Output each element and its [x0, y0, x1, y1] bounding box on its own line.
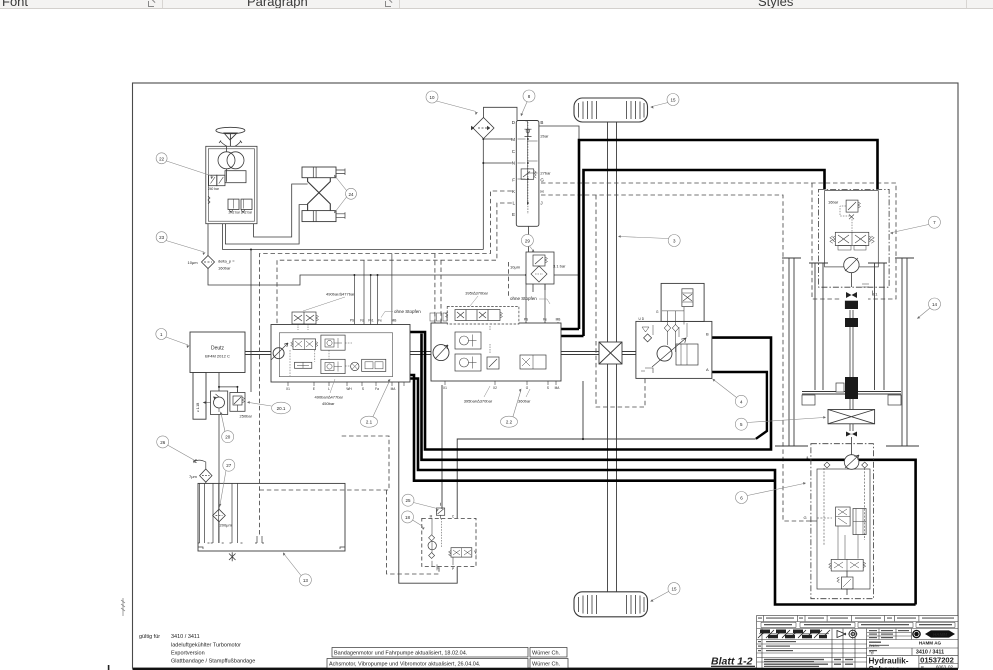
fold mark: [121, 598, 125, 616]
svg-text:25: 25: [405, 498, 411, 503]
svg-text:Zeichn.: Zeichn.: [869, 644, 880, 648]
wire: pump pilot risers: [354, 254, 545, 325]
svg-text:D: D: [512, 120, 516, 125]
leader circle 27: [219, 459, 235, 507]
suction filter 26: [194, 460, 213, 483]
leader circle 15 top: [650, 94, 679, 109]
svg-text:PS: PS: [350, 319, 354, 323]
leader 20.1: [247, 401, 291, 414]
projection symbols: [837, 629, 858, 639]
pump 2.1 port labels: [286, 319, 396, 392]
engine 1 Deutz: [190, 332, 245, 419]
dashed net: manifold G to drum motor: [541, 183, 896, 299]
svg-text:Achsmotor, Vibropumpe und Vibr: Achsmotor, Vibropumpe und Vibromotor akt…: [329, 662, 481, 668]
gearbox X-box on axle: [599, 342, 622, 364]
svg-text:E: E: [512, 212, 515, 217]
leader circle 18: [402, 511, 425, 530]
revision note boxes: [327, 648, 568, 669]
vibromotor block 6: [806, 444, 873, 599]
svg-text:L: L: [512, 201, 515, 206]
svg-text:≥ 1.1B: ≥ 1.1B: [196, 403, 200, 412]
wire: steering feed left column: [483, 139, 512, 250]
svg-text:450bar: 450bar: [322, 401, 335, 406]
svg-text:MA: MA: [391, 387, 397, 391]
thick drive line pump2.2 to drum motor A: [559, 170, 825, 336]
svg-text:K: K: [512, 189, 515, 194]
svg-text:ohne Stopfen: ohne Stopfen: [510, 296, 537, 301]
svg-text:Exportversion: Exportversion: [171, 651, 205, 657]
svg-text:Würner Ch.: Würner Ch.: [532, 662, 561, 668]
leader circle 14: [917, 298, 941, 319]
svg-text:X1: X1: [286, 387, 290, 391]
svg-text:20: 20: [225, 435, 231, 440]
vibration gearbox 5: [828, 410, 875, 424]
svg-text:HAMM: HAMM: [933, 632, 947, 637]
engine-pump mechanical shaft: [245, 352, 658, 355]
svg-text:Fs: Fs: [360, 319, 364, 323]
wire: charge/return line y275: [208, 224, 579, 285]
svg-text:U D: U D: [639, 317, 645, 321]
svg-text:24: 24: [348, 192, 354, 197]
svg-text:2bar: 2bar: [540, 133, 549, 138]
fake small texts rows: [758, 618, 954, 668]
leader circle 7: [890, 216, 940, 234]
svg-text:Typ: Typ: [869, 651, 874, 655]
drawing frame: [133, 83, 959, 668]
thick line axle motor A: [711, 372, 767, 439]
svg-text:27: 27: [226, 463, 232, 468]
svg-text:Fv1: Fv1: [368, 319, 374, 323]
steering unit 22: [206, 146, 257, 223]
dashed pilot net: manifold K/L to pumps: [260, 191, 512, 536]
svg-text:delta_p =: delta_p =: [218, 259, 235, 264]
svg-text:MB: MB: [556, 318, 561, 322]
dashed net: axle motor loop: [596, 195, 645, 407]
svg-text:HAMM AG: HAMM AG: [919, 640, 942, 645]
svg-text:2N2 bar 2N2 bar: 2N2 bar 2N2 bar: [229, 211, 254, 215]
svg-text:10: 10: [429, 95, 435, 100]
svg-text:22: 22: [159, 156, 165, 161]
svg-text:C: C: [512, 149, 516, 154]
svg-text:18: 18: [405, 515, 411, 520]
relief valve 20.1: [230, 390, 245, 412]
tank 13: [198, 483, 346, 561]
leader circle 25: [402, 494, 439, 512]
svg-text:S: S: [362, 387, 364, 391]
pump 2.2 port labels: [443, 318, 560, 390]
svg-text:2.2: 2.2: [506, 420, 513, 425]
svg-text:395bar/∆370bar: 395bar/∆370bar: [464, 399, 493, 404]
svg-text:10μm: 10μm: [510, 265, 521, 270]
charge pump 20: [204, 391, 228, 415]
svg-text:WH: WH: [346, 387, 352, 391]
svg-text:G: G: [804, 515, 807, 520]
svg-text:M: M: [511, 137, 515, 142]
wire: charge pump circuit bottom left: [206, 249, 252, 544]
svg-text:P: P: [452, 567, 454, 571]
leader circle 23: [156, 232, 205, 255]
leader circle 6: [736, 482, 807, 503]
svg-text:X1: X1: [443, 386, 447, 390]
leader circle 22: [156, 153, 213, 179]
svg-text:Fe: Fe: [378, 319, 382, 323]
svg-text:Würner Ch.: Würner Ch.: [532, 651, 561, 657]
leader circle 13: [283, 552, 311, 586]
svg-text:MA: MA: [555, 386, 561, 390]
thick line pump to axle motor B: [410, 332, 771, 450]
svg-text:15: 15: [671, 587, 677, 592]
svg-text:S: S: [547, 386, 549, 390]
steering wheel: [216, 127, 245, 147]
svg-text:29: 29: [525, 238, 531, 243]
vibro pump 2.2: [431, 323, 561, 381]
leader circle 3: [618, 235, 680, 247]
svg-text:200μm: 200μm: [220, 523, 233, 528]
svg-text:PS: PS: [524, 318, 528, 322]
svg-text:13: 13: [303, 578, 309, 583]
svg-text:B: B: [706, 332, 709, 337]
svg-text:16bar: 16bar: [828, 200, 839, 205]
leader circle 26: [157, 436, 196, 463]
axle motor block 4: [636, 283, 712, 378]
svg-text:Bandagenmotor und Fahrpumpe ak: Bandagenmotor und Fahrpumpe aktualisiert…: [334, 651, 468, 657]
leader 2.2: [501, 389, 522, 428]
thick vibro line 2: [410, 379, 916, 605]
filter 27: [213, 509, 226, 522]
filter block 29: [526, 252, 554, 284]
svg-text:X2: X2: [493, 386, 497, 390]
svg-text:01537202: 01537202: [920, 655, 954, 664]
drive pump 2.1: [271, 325, 410, 383]
svg-text:27bar: 27bar: [540, 171, 551, 176]
frame bottom heavy edge: [133, 668, 959, 670]
leader circle 8: [521, 90, 535, 116]
wire: filter10 to manifold: [483, 107, 579, 140]
leader circle 5: [735, 416, 826, 430]
drum frame 14: [775, 258, 919, 446]
pump 2.1 pilot valve: [292, 312, 319, 330]
HAMM logo: [925, 630, 955, 637]
svg-text:G: G: [540, 177, 544, 182]
leader 2.1: [361, 379, 391, 427]
svg-text:A: A: [706, 367, 709, 372]
svg-text:Fe: Fe: [543, 318, 547, 322]
svg-text:Glattbandage / Stampffußbandag: Glattbandage / Stampffußbandage: [171, 659, 255, 665]
svg-text:14: 14: [932, 302, 938, 307]
leader circle 1: [156, 329, 190, 349]
wire: steering hoses to cylinders: [223, 184, 484, 250]
wire: manifold E to filter29: [516, 215, 545, 292]
svg-text:Deutz: Deutz: [211, 346, 225, 352]
drum drive motor block 7: [819, 189, 890, 295]
svg-text:10μm: 10μm: [188, 260, 199, 265]
thick drive line pump2.2 MB to drum motor B: [559, 140, 878, 329]
leader circle 24: [334, 175, 357, 214]
filter 23: [202, 256, 215, 269]
leader circle 20: [220, 412, 234, 443]
svg-text:L: L: [328, 387, 330, 391]
svg-text:160bar: 160bar: [218, 266, 231, 271]
svg-text:B: B: [540, 120, 543, 125]
title block: [757, 616, 958, 669]
svg-text:H: H: [540, 189, 543, 194]
axle drive shafts (3): [608, 122, 617, 592]
leader circle 4: [712, 379, 747, 407]
gueltig fuer text block: [139, 634, 255, 665]
drum shaft and eccentric masses: [850, 310, 853, 410]
svg-text:240 bar: 240 bar: [208, 187, 220, 191]
svg-text:T: T: [437, 566, 439, 570]
steering cylinders 24: [302, 167, 345, 222]
wire: pump common charge line (S): [399, 381, 756, 583]
svg-text:N: N: [512, 161, 515, 166]
svg-text:20.1: 20.1: [277, 406, 286, 411]
svg-text:250bar: 250bar: [240, 414, 253, 419]
coupling below motor 7: [845, 292, 858, 309]
svg-text:15: 15: [670, 98, 676, 103]
svg-text:L1: L1: [873, 292, 878, 297]
svg-text:2.1: 2.1: [366, 420, 373, 425]
fold mark bottom: [108, 665, 110, 670]
wheel 15 bottom: [574, 592, 648, 617]
dashed box1 bottom around pumps: [260, 436, 390, 490]
ribbon bar: [0, 0, 993, 9]
svg-text:Fa: Fa: [375, 387, 379, 391]
dashed net: manifold J to vibromotor G: [541, 195, 806, 521]
valve block 18/25: [422, 503, 477, 571]
svg-text:395/∆370bar: 395/∆370bar: [465, 291, 488, 296]
svg-text:7μm: 7μm: [189, 474, 198, 479]
wheel 15 top: [574, 98, 648, 122]
svg-text:M: M: [430, 515, 433, 519]
svg-text:ohne Stopfen: ohne Stopfen: [394, 309, 421, 314]
svg-text:BF4M 2012 C: BF4M 2012 C: [205, 354, 230, 359]
title block hatching: [758, 630, 830, 638]
svg-text:J: J: [540, 201, 542, 206]
filter 10: [471, 118, 494, 139]
svg-text:C: C: [452, 515, 455, 519]
svg-text:490bar/∆477bar: 490bar/∆477bar: [315, 395, 344, 400]
svg-text:G: G: [656, 310, 659, 314]
leader circle 15 bottom: [650, 583, 680, 602]
thick vibro line 1: [422, 334, 916, 605]
svg-text:a: a: [807, 456, 809, 460]
leader circle 10: [426, 91, 478, 115]
coupling below gearbox 5: [846, 424, 857, 455]
leader circle 29: [521, 234, 534, 252]
WIRTGEN group logo: [912, 630, 921, 639]
svg-text:360bar: 360bar: [518, 399, 531, 404]
dashed box2 around valve 18: [387, 490, 440, 574]
svg-text:3410 / 3411: 3410 / 3411: [171, 634, 200, 640]
svg-text:Blatt 1-2: Blatt 1-2: [711, 656, 753, 668]
svg-text:26: 26: [160, 440, 166, 445]
svg-text:G: G: [526, 386, 529, 390]
svg-text:490bar/∆477bar: 490bar/∆477bar: [326, 292, 355, 297]
svg-text:3.1 bar: 3.1 bar: [553, 264, 566, 269]
thick vibro line 3: [410, 375, 775, 481]
svg-text:E: E: [313, 387, 315, 391]
svg-text:gültig für: gültig für: [139, 634, 160, 640]
svg-text:F: F: [512, 177, 515, 182]
svg-text:ladeluftgekühlter Turbomotor: ladeluftgekühlter Turbomotor: [171, 643, 241, 649]
pump 2.2 top control row: [430, 307, 519, 325]
manifold 8: [516, 121, 539, 227]
svg-text:23: 23: [159, 235, 165, 240]
svg-text:MB: MB: [392, 319, 397, 323]
